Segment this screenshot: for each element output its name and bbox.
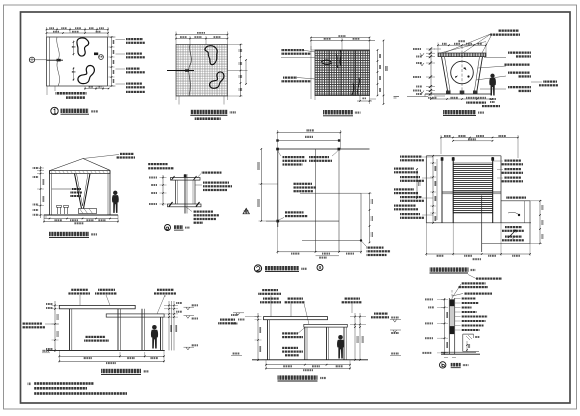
panel 3 right dimension columns (377, 50, 379, 96)
roof plan middle beam (442, 191, 501, 193)
panel 1 datum target circle (29, 57, 34, 62)
panel 1 left wall band (49, 37, 51, 86)
panel 5 roof triangle (50, 159, 83, 171)
plan 2 left direction arrow (243, 208, 249, 214)
plan 2 top dimension row 1 (278, 132, 341, 134)
roof plan leader to below-detail note (476, 278, 502, 280)
panel 2 wavy line (189, 45, 192, 97)
elevation B top leader texts (262, 289, 278, 291)
elevation B left dimension chain (257, 313, 259, 361)
panel 4 center circle opening (451, 61, 474, 84)
panel 5 mid rail line (52, 188, 80, 190)
elevation B columns (267, 320, 269, 360)
panel 4 left dimension chain (430, 49, 432, 96)
roof plan title (430, 267, 469, 271)
detail b center axis (451, 290, 453, 300)
elevation B main beam upper (264, 317, 328, 320)
panel 5 interior note text (72, 188, 81, 190)
elevation A lower right beam (106, 314, 164, 317)
plan 2 interior annotation center (293, 183, 312, 185)
roof plan top dimension rows (441, 137, 518, 139)
panel 1 planting bean blob lower (78, 65, 94, 83)
panel 4 person figure (489, 74, 496, 96)
plan 2 top dimension row 2 (278, 140, 340, 142)
panel 3 heavier internal verticals (328, 50, 330, 96)
detail a title circle and caption (165, 225, 171, 231)
plan 2 small circle marker b near title (317, 265, 323, 271)
panel 4 left level-mark triangles (420, 53, 424, 56)
panel 2 right dimension columns (240, 45, 242, 97)
panel 5 bottom dimension rows (44, 218, 118, 220)
detail b left dimension chain (444, 298, 446, 355)
detail b post with caps (448, 298, 450, 354)
detail b right small leader texts (462, 298, 476, 300)
plan 2 bottom-right leader text (361, 241, 367, 247)
roof plan step diagonal arrows (508, 230, 516, 238)
plan 2 bottom dimension rows (278, 251, 362, 253)
plan 2 left edge line (277, 149, 279, 227)
panel 4 right annotation text rows (508, 52, 531, 54)
panel 1 top dimension rows (47, 29, 109, 31)
roof plan right annotation lower (505, 226, 522, 228)
elevation A columns (69, 309, 71, 351)
elevation B person (337, 335, 344, 359)
plan 2 right outside annotation blocks (394, 168, 414, 170)
panel 1 wavy path line (57, 37, 60, 86)
plan 2 left dimension column (260, 149, 262, 221)
detail a top cap bar (171, 178, 201, 181)
plan 2 top edge line with corner node marks (278, 148, 370, 150)
elevation A right-extra annotation near border (220, 319, 235, 321)
roof plan right step outline (501, 200, 530, 202)
panel 4 bottom dimension texts (431, 98, 492, 100)
panel 2 left arrow line (167, 70, 194, 72)
panel 1 bottom annotation text (56, 92, 87, 95)
roof plan right dimension column (539, 201, 541, 244)
detail a post top cap mark (184, 175, 187, 178)
elevation A person (151, 325, 158, 349)
plan 2 center vertical line (315, 149, 317, 252)
panel 4 top-right annotation texts (498, 30, 519, 32)
elevation A center note text (86, 336, 106, 338)
roof plan outer boundary box (425, 156, 427, 223)
panel 4 center dashed axis (461, 46, 463, 96)
elevation A ground line (47, 349, 165, 351)
panel 3 far-right tiny mark (394, 96, 400, 98)
panel 2 bean blob upper (205, 46, 217, 65)
panel 5 right wall double line (109, 171, 111, 216)
detail a right leader texts (195, 184, 202, 186)
plan 2 interior annotation lower-left (285, 211, 304, 213)
panel 5 floor line (44, 214, 118, 216)
roof plan bottom dimension row (426, 253, 530, 255)
plan 2 title circle 2 and caption (254, 265, 261, 272)
panel 5 title (49, 232, 89, 236)
elevation B ground line (252, 359, 368, 361)
detail a left dimension chain (162, 175, 164, 206)
roof plan left outside annotation blocks (400, 156, 422, 158)
plan 2 step right vertical (360, 193, 362, 240)
elevation A far right level marks (184, 306, 195, 308)
panel 4 top dimension row (438, 44, 486, 46)
panel 4 leader lines to top-right texts (444, 34, 491, 53)
elevation B left level mark (233, 312, 244, 314)
roof plan central lower vertical (481, 196, 483, 253)
panel 5 left dimension chain (40, 166, 42, 218)
panel 3 bottom right small step (359, 96, 361, 102)
elevation B title (278, 375, 318, 379)
plan 2 bottom edge line at y221 (266, 220, 339, 222)
elevation B beam right lower (304, 324, 348, 327)
detail a bottom leader texts (193, 211, 213, 213)
plan 2 right edge vertical line (338, 149, 340, 252)
plan 2 interior annotation texts upper (283, 156, 305, 158)
panel 4 title (443, 110, 476, 114)
panel 5 benches (57, 206, 62, 208)
detail b lower step detail (463, 333, 474, 335)
panel 4 far right extra note (543, 81, 557, 83)
panel 4 top beam band with dense hatch (438, 53, 486, 57)
panel 5 V column pedestal (79, 209, 97, 214)
elevation A upper beam (59, 305, 135, 308)
panel 1 title circle 1 and caption (51, 107, 58, 114)
plan 2 lower horizontal line (302, 240, 361, 242)
panel 3 extension lines (311, 49, 315, 51)
elevation B mid annotation texts (282, 332, 298, 334)
elevation A left dimension chain (54, 301, 56, 352)
panel 4 horizontal leaders to right texts (484, 57, 506, 59)
elevation B bottom dimension rows (266, 364, 350, 366)
detail a box verticals (175, 180, 177, 204)
plan 2 far right dimension line (416, 169, 418, 198)
detail a central post (184, 174, 186, 214)
elevation B right dimension chains (354, 313, 356, 360)
panel 1 right dimension column (111, 37, 113, 86)
detail b base plate and ground (441, 351, 476, 353)
panel 3 title (323, 110, 353, 114)
roof plan slat area (453, 163, 493, 213)
panel 3 left leader texts (281, 49, 304, 51)
elevation B right annotation texts (374, 313, 388, 315)
panel 5 left wall double line (49, 171, 51, 216)
detail a bottom bar (168, 204, 202, 207)
elevation A right dimension chains (168, 301, 170, 350)
panel 5 roof leader texts top right (120, 153, 134, 155)
panel 2 top dimension rows (176, 34, 228, 36)
panel 1 interior reference lines (73, 41, 75, 56)
roof plan left dimension chain (432, 156, 434, 223)
panel 4 base feet and ground (446, 91, 451, 94)
panel 3 top dimension row (311, 40, 375, 42)
panel 5 top beam band (50, 171, 111, 174)
panel 3 plant curvy lines (321, 50, 341, 68)
sheet notes bottom-left (28, 383, 32, 386)
panel 2 vertical extension lines below (178, 96, 180, 105)
elevation A title (101, 369, 141, 373)
panel 4 person small note below (489, 98, 496, 100)
panel 5 V column (75, 174, 82, 209)
elevation A top leader texts (71, 289, 88, 291)
panel 1 planting bean blob upper (77, 38, 89, 56)
panel 1 plan view outline (47, 37, 108, 86)
panel 1 right leader annotation texts (126, 38, 143, 40)
panel 5 person figure (112, 191, 119, 213)
detail b top leader texts (462, 282, 486, 284)
elevation A bottom dimension rows (59, 355, 164, 357)
plan 2 step horizontal line (300, 192, 361, 194)
roof plan right annotation middle (506, 197, 526, 199)
panel 2 bean blob lower (210, 72, 224, 88)
panel 3 paving square with dark tile grid (315, 50, 370, 96)
panel 2 title and note (190, 110, 227, 114)
plan 2 right step dimension column (369, 193, 371, 242)
panel 2 paving square with fine grid hatch (176, 45, 228, 97)
panel 1 detail marker circle a (99, 55, 104, 60)
panel 1 bottom small dimension row (85, 88, 109, 90)
roof plan right annotation blocks upper (504, 160, 521, 162)
detail a top right text (202, 172, 222, 174)
detail a top-left note text (148, 163, 168, 165)
detail b title circle and caption (440, 362, 446, 368)
roof plan slat posts with caps (441, 157, 443, 223)
panel 4 body tapered sides (442, 57, 448, 91)
elevation A left leader text (22, 323, 42, 325)
